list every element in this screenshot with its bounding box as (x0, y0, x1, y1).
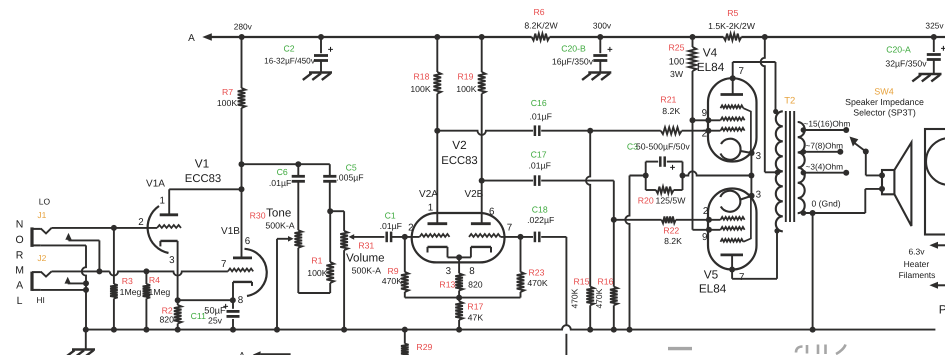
capacitor C17 (529, 150, 551, 186)
label 6.3v heater (899, 247, 936, 281)
svg-text:ECC83: ECC83 (441, 155, 477, 167)
capacitor C1 (380, 210, 402, 242)
node bus C11 (230, 327, 236, 333)
svg-text:C18: C18 (532, 205, 548, 215)
resistor R29 (401, 330, 433, 358)
wire J1 tip to V1A grid (52, 227, 158, 229)
transformer T2 secondary (798, 122, 805, 213)
main ground (66, 330, 95, 357)
svg-text:V2: V2 (452, 138, 466, 152)
transformer T2 core (786, 111, 794, 222)
svg-text:3: 3 (756, 190, 762, 201)
tube V2 label (441, 138, 477, 167)
plate of V2B (471, 222, 491, 225)
svg-text:O: O (16, 234, 24, 246)
cathode of V4 (721, 139, 752, 160)
node R23 top junction (518, 234, 524, 240)
svg-text:100K: 100K (307, 268, 327, 278)
svg-text:C6: C6 (277, 167, 288, 177)
resistor R25 (669, 37, 721, 230)
wire top rail segment 10 (934, 36, 945, 38)
svg-text:.01µF: .01µF (269, 178, 291, 188)
node bus J ground (83, 327, 89, 333)
cathode of V2A (428, 247, 460, 258)
node 280v junction at R7 (239, 34, 245, 40)
node C5-R1 junction (327, 208, 333, 214)
wire top rail segment 1 (242, 36, 321, 38)
svg-text:J2: J2 (37, 253, 46, 263)
node V5 screen on envelope (706, 227, 712, 233)
svg-text:ECC83: ECC83 (185, 173, 221, 185)
jack J2 (32, 271, 52, 291)
svg-text:L: L (17, 295, 23, 307)
switch contact J2 (65, 277, 87, 284)
node C6 junction (295, 161, 301, 167)
svg-text:R9: R9 (387, 266, 398, 276)
pin 7 label V5 (739, 272, 744, 283)
svg-text:C5: C5 (346, 163, 357, 173)
capacitor C3 (627, 142, 690, 176)
svg-text:R23: R23 (529, 268, 545, 278)
speaker (882, 143, 911, 227)
node bus R17 (456, 327, 462, 333)
svg-text:Volume: Volume (346, 252, 385, 265)
grid of V1B (228, 269, 253, 272)
plate of V1B (233, 256, 252, 259)
svg-text:~15(16)Ohm: ~15(16)Ohm (804, 119, 851, 129)
svg-text:LO: LO (39, 196, 51, 206)
svg-text:9: 9 (702, 232, 707, 243)
wiper of R31 (349, 234, 385, 240)
svg-text:R21: R21 (660, 95, 676, 105)
svg-text:50µF: 50µF (204, 305, 226, 315)
tap ~3 Ohm (801, 161, 850, 175)
cut text bottom right (668, 345, 846, 355)
node T2 primary bottom (774, 228, 779, 233)
switch contact J1 (65, 233, 99, 272)
wire 0 Gnd to ground bus (812, 213, 814, 330)
svg-text:R15: R15 (574, 277, 590, 287)
svg-text:+: + (941, 44, 945, 55)
svg-text:1Meg: 1Meg (120, 287, 142, 297)
net A arrow (bottom, cut) (239, 351, 291, 360)
node J1 switch junction (96, 268, 102, 274)
wire V1A cathode to R2 node (177, 241, 179, 300)
svg-text:SW4: SW4 (874, 87, 894, 97)
resistor R13 (439, 257, 482, 297)
svg-text:16µF/350v: 16µF/350v (552, 57, 594, 67)
svg-text:100: 100 (669, 56, 685, 66)
svg-text:.01µF: .01µF (529, 160, 551, 170)
resistor R23 (517, 237, 548, 298)
resistor R19 (456, 37, 485, 224)
svg-text:50-500µF/50v: 50-500µF/50v (636, 142, 690, 152)
svg-text:6.3v: 6.3v (908, 247, 925, 257)
svg-text:2: 2 (138, 217, 143, 228)
svg-text:+: + (670, 163, 676, 174)
svg-text:325v: 325v (925, 21, 944, 31)
node V4 grid wire on envelope (705, 117, 711, 123)
wire top rail segment 2 (321, 36, 437, 38)
svg-text:R29: R29 (416, 342, 432, 352)
node R25-V4 screen junction (690, 117, 696, 123)
node V5 plate wire on envelope (729, 267, 735, 273)
tap 0 Gnd (801, 199, 841, 216)
plate of V5 (721, 255, 744, 279)
cathode of V1B (233, 282, 252, 286)
wire B+ to T2 center tap (761, 37, 778, 172)
svg-text:V5: V5 (704, 267, 719, 281)
node C3-R20 left junction (643, 173, 649, 179)
heater feed arrow 2 (929, 282, 945, 289)
svg-text:6: 6 (245, 236, 251, 247)
pin 7 label V1B (221, 259, 226, 270)
pin 2 label V1A (138, 217, 143, 228)
resistor R17 (455, 298, 483, 330)
wire top rail segment 3 (437, 36, 481, 38)
resistor R7 (217, 37, 245, 258)
svg-text:3: 3 (169, 255, 175, 266)
svg-text:0 (Gnd): 0 (Gnd) (812, 199, 841, 209)
svg-text:8.2K: 8.2K (664, 236, 682, 246)
pin 8 label V1B (238, 295, 244, 306)
triode V1B envelope (221, 226, 267, 296)
pin 7 label V2B (507, 222, 512, 233)
svg-text:J1: J1 (37, 210, 46, 220)
node bus R15 (587, 327, 593, 333)
svg-text:500K-A: 500K-A (352, 266, 381, 276)
capacitor C2 (264, 37, 334, 73)
svg-text:Heater: Heater (904, 259, 930, 269)
node bus tone wiper (274, 327, 280, 333)
svg-text:HI: HI (36, 295, 45, 305)
grid g3 of V4 (721, 105, 751, 153)
capacitor C16 (530, 98, 552, 136)
wire top rail segment 6 (600, 36, 692, 38)
resistor R18 (410, 37, 441, 224)
tube V1 label (185, 156, 221, 185)
tap ~7 Ohm (801, 140, 844, 154)
node T2 center tap (775, 170, 781, 176)
wire J1 sleeve to ground (41, 245, 86, 329)
potentiometer R31 Volume (340, 231, 384, 330)
wire V4 pin3 to V5 pin3 (750, 153, 752, 196)
label 280v (234, 22, 253, 32)
svg-text:3: 3 (756, 151, 762, 162)
capacitor C6 (269, 164, 305, 230)
node C3-R20 right junction (680, 173, 686, 179)
svg-text:6: 6 (489, 206, 495, 217)
wire ground bus (86, 325, 936, 329)
jack J2 label (37, 253, 46, 263)
wire top rail segment 9 (765, 36, 934, 38)
wire R9-R13-R23 node line (405, 297, 521, 299)
node bus T2 gnd (810, 327, 816, 333)
svg-text:.01µF: .01µF (380, 221, 402, 231)
svg-text:Selector (SP3T): Selector (SP3T) (853, 107, 916, 117)
label NORMAL (15, 219, 24, 308)
tube V4 label (697, 46, 725, 75)
svg-text:EL84: EL84 (697, 60, 725, 74)
node speaker - terminal (879, 186, 885, 192)
plate of V2A (428, 222, 448, 225)
resistor R16 (594, 220, 618, 330)
grid of V1A (157, 225, 181, 228)
grid of V2A (420, 234, 450, 237)
svg-text:125/5W: 125/5W (656, 196, 687, 206)
svg-text:25v: 25v (208, 315, 223, 325)
jack J1 (32, 227, 52, 247)
pin 2 label V4 (702, 129, 707, 140)
resistor R3 (110, 228, 141, 330)
pin 2 label V2A (408, 222, 413, 233)
svg-text:~7(8)Ohm: ~7(8)Ohm (806, 140, 844, 150)
node bus R29 (402, 327, 408, 333)
transformer T2 label (784, 96, 795, 107)
svg-text:P: P (939, 303, 945, 317)
node bus C3/R20 (627, 327, 633, 333)
svg-text:32µF/350v: 32µF/350v (885, 59, 927, 69)
pin 9 label V4 (702, 108, 707, 119)
svg-text:3: 3 (446, 266, 452, 277)
wire cathode bus V1 (178, 299, 233, 301)
resistor R20 (638, 176, 687, 206)
capacitor C18 (527, 205, 554, 243)
wire SW4 wiper to speaker (866, 152, 882, 176)
svg-text:9: 9 (702, 108, 707, 119)
svg-text:R31: R31 (358, 240, 374, 250)
svg-text:470K: 470K (382, 276, 402, 286)
net A arrow (280v rail, left end) (188, 33, 242, 44)
resistor R4 (143, 271, 171, 329)
svg-text:7: 7 (738, 66, 743, 77)
grid of V2B (469, 234, 501, 237)
svg-text:R16: R16 (598, 277, 614, 287)
svg-text:R13: R13 (439, 280, 455, 290)
node J2 switch junction (83, 280, 89, 286)
svg-text:820: 820 (468, 280, 483, 290)
cathode of V2B (459, 247, 491, 258)
wire V1A plate to R7 (169, 189, 241, 215)
label 300v (593, 21, 612, 31)
svg-text:R20: R20 (638, 196, 654, 206)
tube V5 envelope (708, 189, 757, 270)
resistor R9 (382, 237, 409, 298)
node R18 junction (434, 34, 440, 40)
heater feed arrow 1 (929, 242, 945, 249)
svg-text:Tone: Tone (266, 206, 291, 219)
svg-text:1: 1 (428, 202, 433, 213)
svg-text:8.2K: 8.2K (662, 106, 680, 116)
wire tone bottom to R1 (298, 292, 330, 294)
pin 3 node V4 (749, 150, 755, 156)
svg-text:16-32µF/450v: 16-32µF/450v (264, 57, 316, 66)
node R7-C6 junction (239, 161, 245, 167)
potentiometer R30 Tone (250, 206, 302, 293)
node V4 control grid on envelope (705, 128, 711, 134)
pin 3 node V5 (749, 193, 755, 199)
screen grid of V4 (721, 117, 745, 120)
svg-text:~3(4)Ohm: ~3(4)Ohm (806, 161, 844, 171)
svg-text:+: + (607, 45, 613, 56)
wire C18 from V2B grid (501, 237, 567, 326)
svg-text:100K: 100K (217, 98, 237, 108)
svg-text:2: 2 (703, 206, 708, 217)
pin 7 label V4 (738, 66, 743, 77)
control grid of V5 (721, 217, 745, 220)
label 325v (925, 21, 944, 31)
wire top rail segment 5 (550, 36, 601, 38)
resistor R22 (614, 216, 721, 246)
svg-text:1: 1 (159, 195, 164, 206)
wire C1 to V2A grid (391, 236, 420, 238)
svg-text:V2A: V2A (419, 189, 438, 200)
svg-text:A: A (188, 33, 195, 44)
pin 3/8 cathode node (175, 297, 181, 303)
screen grid of V5 (721, 227, 745, 230)
pin 3 label V2A (446, 266, 452, 277)
svg-text:R5: R5 (727, 8, 738, 18)
svg-text:Speaker Impedance: Speaker Impedance (845, 97, 924, 107)
ground for C20-B (582, 73, 611, 80)
svg-text:N: N (16, 219, 24, 231)
svg-text:R19: R19 (458, 71, 474, 81)
svg-text:47K: 47K (468, 313, 484, 323)
plate of V4 (721, 62, 744, 95)
svg-text:R7: R7 (222, 87, 233, 97)
node 325v junction (931, 34, 937, 40)
wire V1B cathode to C11 node (232, 282, 234, 300)
wire V5 plate to T2 primary bottom (732, 231, 777, 278)
wiper of R30 (277, 236, 294, 330)
svg-text:R1: R1 (311, 256, 322, 266)
svg-text:T2: T2 (784, 96, 795, 107)
svg-text:Filaments: Filaments (899, 270, 936, 280)
svg-text:280v: 280v (234, 22, 253, 32)
node bus R2 (175, 327, 181, 333)
wire C17 from V2B plate (482, 181, 614, 220)
wire C3 left node to ground (625, 176, 645, 330)
node R16-R22 junction (611, 217, 617, 223)
svg-text:R3: R3 (122, 276, 133, 286)
svg-text:R25: R25 (669, 42, 685, 52)
svg-text:C20-A: C20-A (886, 45, 911, 55)
svg-text:R22: R22 (663, 225, 679, 235)
pin 9 label V5 (702, 232, 707, 243)
wire C5/R1 node to volume pot (330, 211, 344, 231)
svg-text:8: 8 (469, 266, 475, 277)
node R19 junction (479, 34, 485, 40)
wire V2A plate to C16 (437, 131, 590, 135)
svg-text:.005µF: .005µF (336, 172, 363, 182)
svg-text:500K-A: 500K-A (265, 220, 294, 230)
grid g3 of V5 (721, 196, 751, 242)
svg-text:V1B: V1B (221, 226, 240, 237)
node R25 junction (690, 34, 696, 40)
wire cathode node to EL84 cathodes (683, 171, 752, 175)
node R9 top junction (402, 234, 408, 240)
resistor R6 (524, 7, 558, 41)
svg-text:3W: 3W (670, 69, 684, 79)
node V4 plate wire on envelope (730, 75, 736, 81)
node V5 control grid on envelope (706, 217, 712, 223)
svg-text:C17: C17 (531, 150, 547, 160)
svg-text:300v: 300v (593, 21, 612, 31)
svg-text:8: 8 (238, 295, 244, 306)
node J1 tip junction (111, 225, 117, 231)
jack J1 label (37, 210, 46, 220)
plate of V1A (160, 213, 178, 216)
svg-text:470K: 470K (527, 278, 547, 288)
wire top rail segment 7 (693, 36, 724, 38)
svg-text:R30: R30 (250, 211, 266, 221)
capacitor C20-B (552, 37, 613, 73)
svg-text:7: 7 (507, 222, 512, 233)
svg-text:R4: R4 (149, 275, 160, 285)
tube V4 envelope (708, 78, 757, 161)
resistor R1 (307, 211, 334, 293)
pin 3 label V4 (756, 151, 762, 162)
resistor R2 (159, 300, 181, 329)
wire C18 drop below bus (565, 334, 567, 355)
label LO (39, 196, 51, 206)
node 0 Gnd junction (810, 210, 816, 216)
node bus R16 (611, 327, 617, 333)
svg-text:470K: 470K (594, 288, 604, 308)
pin 6 label V1B (245, 236, 251, 247)
capacitor C11 (191, 300, 240, 329)
svg-text:R17: R17 (467, 302, 483, 312)
wire top rail segment 8 (741, 36, 765, 38)
svg-text:1.5K-2K/2W: 1.5K-2K/2W (708, 21, 756, 31)
tube V2 envelope (412, 213, 505, 262)
svg-text:2: 2 (408, 222, 413, 233)
svg-text:.022µF: .022µF (527, 215, 554, 225)
wire top rail segment 4 (482, 36, 532, 38)
node C2 junction (318, 34, 324, 40)
resistor R15 (570, 131, 595, 330)
svg-text:820: 820 (159, 314, 174, 324)
pin 3 label V1A (169, 255, 175, 266)
resistor R5 (708, 8, 756, 41)
svg-text:C2: C2 (283, 43, 294, 53)
pin 3 label V5 (756, 190, 762, 201)
node R15 top junction (587, 128, 593, 134)
svg-text:EL84: EL84 (699, 282, 727, 296)
svg-text:V4: V4 (703, 46, 718, 60)
svg-text:C20-B: C20-B (561, 43, 586, 53)
label V2A (419, 189, 438, 200)
triode V1A envelope (146, 179, 168, 254)
svg-text:A: A (16, 280, 23, 292)
node T2 primary top (773, 109, 778, 114)
capacitor C5 (323, 163, 363, 212)
pin 6 label V2B (489, 206, 495, 217)
switch SW4 label (845, 87, 924, 118)
wire J2 sleeve (41, 289, 86, 291)
node bus volume (341, 327, 347, 333)
svg-text:7: 7 (739, 272, 744, 283)
ground for C2 (303, 73, 332, 80)
pin 8 label V2B (469, 266, 475, 277)
svg-text:100K: 100K (456, 84, 476, 94)
node V2 cathode junction (456, 254, 462, 260)
node C16 wire junction at R18 (434, 128, 440, 134)
node J2 sleeve junction (83, 287, 89, 293)
wire V4 plate to T2 primary top (733, 62, 776, 111)
transformer T2 primary (776, 111, 783, 231)
resistor R21 (590, 95, 720, 135)
